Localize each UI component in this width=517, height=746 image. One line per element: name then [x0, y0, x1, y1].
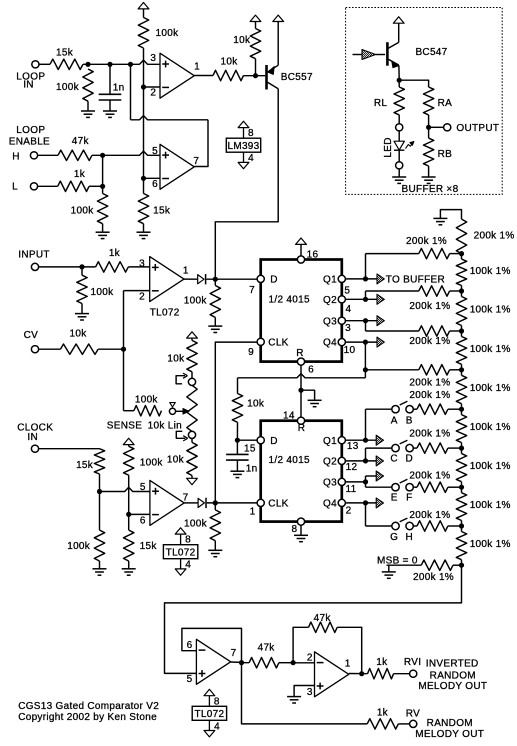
node ladder 8	[459, 523, 464, 528]
wire D pin 15 from junction	[237, 439, 257, 441]
pin 15 D	[257, 437, 264, 444]
resistor 10k pull-up	[250, 29, 260, 59]
svg-text:RANDOM: RANDOM	[430, 670, 476, 681]
svg-text:RANDOM: RANDOM	[427, 718, 473, 729]
svg-text:CV: CV	[24, 330, 39, 341]
buffer input hatched arrow	[353, 54, 363, 56]
resistor 200k 1% row5	[413, 408, 417, 410]
wire output to diode	[184, 502, 198, 504]
ground below 100k	[87, 101, 89, 111]
svg-text:Q1: Q1	[323, 275, 337, 286]
jumper terminal G	[392, 522, 399, 529]
svg-text:200k 1%: 200k 1%	[409, 510, 450, 521]
power V+ above R 100k	[138, 3, 149, 9]
svg-text:47k: 47k	[72, 136, 90, 147]
svg-text:11: 11	[346, 484, 357, 495]
svg-text:2: 2	[346, 505, 352, 516]
wire Q4 to DAC row4	[364, 342, 366, 370]
ground below clock 15k	[128, 561, 130, 569]
resistor 1k	[58, 181, 89, 191]
resistor 200k 1% row6	[413, 447, 417, 449]
node ladder 2	[459, 288, 464, 293]
node dot feedback tap	[128, 62, 133, 67]
resistor 100k 1% ladder 5	[461, 409, 463, 415]
svg-text:LOOP: LOOP	[16, 125, 45, 136]
svg-text:4: 4	[185, 560, 191, 571]
wire 10k to CV bus	[98, 348, 123, 350]
resistor 100k 1% ladder 2	[461, 291, 463, 297]
resistor 15k bus to ground	[138, 194, 148, 224]
wire diode to CLK pins	[207, 502, 258, 504]
svg-text:100k: 100k	[184, 296, 208, 307]
node ladder 3	[459, 328, 464, 333]
wire Q4 to buffer	[345, 341, 377, 343]
resistor 200k 1% row8	[413, 525, 417, 527]
wire Q4 pin2 to buffer	[345, 502, 376, 504]
panel arrow pot bottom	[176, 431, 185, 438]
wire ladder bottom to output mixer	[165, 565, 462, 673]
buffer arrow pin13	[376, 435, 383, 445]
pin 7 D	[257, 275, 264, 282]
ground below clock 100k	[99, 561, 101, 569]
svg-text:12: 12	[346, 462, 358, 473]
wire Q3 to DAC row3	[365, 321, 367, 331]
svg-text:100k 1%: 100k 1%	[470, 266, 511, 277]
svg-text:5: 5	[344, 286, 350, 297]
resistor RA	[423, 87, 433, 115]
svg-text:10k: 10k	[167, 353, 185, 364]
wire Q3 to buffer	[345, 320, 377, 322]
svg-text:LED: LED	[383, 137, 394, 157]
jumper terminal C	[392, 444, 399, 451]
buffer arrow Q3	[377, 316, 384, 326]
svg-text:F: F	[406, 492, 412, 503]
resistor 100k clock pull-down	[214, 503, 216, 510]
buffer arrow Q1	[377, 274, 384, 284]
wire RL to LED terminal	[398, 115, 400, 124]
wire Q2 pin12 to buffer	[345, 460, 376, 462]
svg-text:47k: 47k	[258, 643, 276, 654]
svg-text:1k: 1k	[376, 657, 388, 668]
resistor 15k	[50, 59, 83, 69]
svg-text:3: 3	[307, 687, 313, 698]
node ladder 5	[459, 407, 464, 412]
wire L to 1k	[37, 185, 57, 187]
resistor 200k 1% row2	[419, 286, 450, 296]
svg-text:Q2: Q2	[323, 457, 337, 468]
wire RV from follower output	[242, 663, 368, 724]
wire Q1 to buffer	[345, 278, 377, 280]
svg-text:LM393: LM393	[227, 141, 259, 152]
buffer arrow Q4	[377, 337, 384, 347]
panel arrow pot top	[176, 376, 185, 384]
resistor 100k to ground	[83, 69, 93, 101]
ground DAC top	[440, 210, 461, 220]
resistor 100k 1% ladder 3	[461, 331, 463, 337]
svg-text:100k 1%: 100k 1%	[470, 383, 511, 394]
svg-text:200k 1%: 200k 1%	[409, 378, 450, 389]
svg-text:CLK: CLK	[268, 337, 288, 348]
svg-text:Q3: Q3	[323, 316, 337, 327]
wire CV bus corner to 100k sense	[124, 410, 134, 412]
wire 10k up and right to Q4 row with hop	[237, 378, 239, 394]
node ladder 1	[459, 251, 464, 256]
jumper terminal H with lever	[406, 522, 413, 529]
jumper terminal D with lever	[406, 444, 413, 451]
resistor 1k input	[96, 262, 129, 272]
resistor 10k sense bottom	[187, 442, 197, 475]
svg-text:E: E	[391, 492, 398, 503]
svg-text:15: 15	[244, 443, 256, 454]
svg-text:CGS13 Gated Comparator V2: CGS13 Gated Comparator V2	[18, 701, 159, 712]
svg-text:MELODY OUT: MELODY OUT	[415, 729, 484, 740]
ground below enable 100k	[102, 224, 104, 233]
wire CV bus down to sense resistor	[123, 291, 125, 411]
svg-text:B: B	[406, 415, 413, 426]
svg-text:4: 4	[248, 153, 254, 164]
svg-text:9: 9	[248, 347, 254, 358]
LED	[398, 131, 400, 142]
svg-text:SENSE: SENSE	[107, 421, 142, 432]
wire to inverter pin2	[293, 662, 314, 664]
IC U3b 1/2 4015 box	[261, 421, 342, 522]
wire diode to D pin of 4015	[206, 278, 257, 280]
svg-text:1: 1	[183, 265, 189, 276]
resistor 47k to inverter	[242, 662, 250, 664]
svg-text:100k: 100k	[184, 518, 208, 529]
dashed buffer box	[346, 8, 503, 195]
svg-text:IN: IN	[27, 432, 38, 443]
pot bottom terminal	[188, 431, 195, 438]
svg-text:H: H	[406, 532, 414, 543]
power V+ pin 16	[296, 238, 307, 244]
power block TL072 clock	[163, 545, 197, 559]
svg-text:13: 13	[347, 441, 359, 452]
svg-text:200k 1%: 200k 1%	[413, 572, 454, 583]
wire follower feedback loop	[182, 628, 242, 662]
diode D1	[198, 275, 204, 284]
svg-text:1k: 1k	[74, 169, 86, 180]
wire comparator output to 10k	[194, 75, 213, 77]
wire 47k to op-amp pin5 with hop	[92, 151, 160, 155]
resistor 100k sense	[134, 406, 162, 416]
resistor 100k 1% ladder 1	[461, 254, 463, 260]
svg-text:100k 1%: 100k 1%	[470, 461, 511, 472]
wire H junction down to L junction	[102, 155, 104, 193]
svg-text:10: 10	[344, 345, 356, 356]
node ladder 7	[459, 485, 464, 490]
svg-text:BC557: BC557	[281, 72, 313, 83]
node dot at 100k tap	[85, 62, 90, 67]
svg-text:10k: 10k	[220, 57, 238, 68]
resistor 47k	[58, 150, 92, 160]
wire emitter node to RA	[399, 80, 428, 87]
wire pull-up down to pin6 node	[128, 475, 130, 514]
svg-text:200k 1%: 200k 1%	[409, 471, 450, 482]
svg-text:8: 8	[291, 524, 297, 535]
svg-text:7: 7	[193, 156, 199, 167]
buffer arrow pin2	[376, 498, 383, 508]
svg-text:D: D	[270, 436, 278, 447]
svg-text:OUTPUT: OUTPUT	[456, 123, 499, 134]
svg-text:5: 5	[152, 146, 158, 157]
resistor 1k RVI	[368, 669, 394, 679]
svg-text:2: 2	[139, 292, 145, 303]
svg-text:MELODY OUT: MELODY OUT	[418, 681, 487, 692]
svg-text:D: D	[406, 454, 414, 465]
op-amp U1a LM393 pin3 pin2 out1	[160, 53, 194, 98]
svg-text:RV: RV	[406, 708, 420, 719]
LED bottom terminal	[396, 162, 403, 169]
diode D2	[198, 498, 204, 507]
wire CLK bus up to upper 4015 CLK	[215, 342, 257, 503]
jumper terminal E	[392, 484, 399, 491]
svg-text:5: 5	[187, 674, 193, 685]
wire BC557 collector down to D input node	[215, 89, 278, 279]
svg-text:3: 3	[345, 323, 351, 334]
svg-text:TL072: TL072	[166, 548, 196, 559]
resistor 100k from V+ to comparator inverting node	[138, 18, 148, 49]
svg-text:RL: RL	[374, 98, 388, 109]
terminal OUTPUT	[444, 124, 451, 131]
IC U3a 1/2 4015 box	[261, 260, 342, 362]
svg-text:15k: 15k	[56, 48, 74, 59]
resistor 47k inverter feedback	[293, 627, 308, 662]
resistor 100k clock junction to ground	[99, 492, 101, 531]
wire H to 47k	[37, 154, 58, 156]
transistor Q1 BC557	[265, 65, 268, 90]
resistor 200k 1% row3	[419, 326, 450, 336]
svg-text:6: 6	[308, 365, 314, 376]
node dot H junction	[100, 153, 105, 158]
svg-text:6: 6	[152, 179, 158, 190]
wire INPUT to 1k	[38, 266, 95, 268]
svg-text:1/2 4015: 1/2 4015	[269, 295, 310, 306]
svg-text:IN: IN	[23, 80, 34, 91]
ground MSB	[387, 564, 422, 566]
svg-text:TL072: TL072	[150, 307, 180, 318]
wire emitter to node	[398, 66, 400, 81]
svg-text:200k 1%: 200k 1%	[409, 390, 450, 401]
svg-text:10k: 10k	[69, 329, 87, 340]
pin 12 Q2	[338, 457, 345, 464]
svg-text:100k 1%: 100k 1%	[470, 539, 511, 550]
wire 15k to op-amp pin3 with hop	[83, 60, 160, 64]
resistor 100k enable to ground	[97, 194, 107, 224]
resistor 10k sense top	[187, 340, 197, 371]
pin 4 Q2	[338, 296, 345, 303]
svg-text:100k: 100k	[71, 206, 95, 217]
op-amp U1b LM393 pin5 pin6 out7	[160, 144, 194, 189]
wire pin2 to CV bus	[124, 290, 150, 292]
pot top terminal	[188, 378, 195, 385]
svg-text:Q3: Q3	[323, 478, 337, 489]
pin 8 ground	[297, 518, 304, 525]
op-amp U2b TL072 pin5 pin6 out7	[150, 480, 184, 525]
terminal L	[30, 183, 37, 190]
wire 10k to BC557 base	[244, 75, 266, 77]
svg-text:8: 8	[185, 535, 191, 546]
svg-text:RVI: RVI	[404, 657, 421, 668]
ground below input 100k	[81, 304, 83, 314]
svg-text:8: 8	[248, 128, 254, 139]
svg-text:1: 1	[345, 658, 351, 669]
svg-text:100k 1%: 100k 1%	[470, 422, 511, 433]
svg-text:10k Lin: 10k Lin	[148, 421, 182, 432]
terminal CV	[31, 346, 38, 353]
svg-text:200k 1%: 200k 1%	[409, 336, 450, 347]
svg-text:3: 3	[150, 53, 156, 64]
svg-text:7: 7	[183, 492, 189, 503]
ground below clock pull-down	[214, 541, 216, 551]
buffer arrow pin12	[376, 456, 383, 466]
buffer arrow pin11	[376, 471, 383, 481]
svg-text:200k 1%: 200k 1%	[406, 236, 447, 247]
resistor 1k RV	[367, 719, 398, 729]
svg-text:100k: 100k	[91, 287, 115, 298]
svg-text:1k: 1k	[377, 707, 389, 718]
terminal CLOCK IN	[31, 445, 38, 452]
svg-text:8: 8	[214, 696, 220, 707]
resistor 10k Q4 to D2	[232, 394, 242, 423]
wire 10k pull-up to base node	[255, 59, 257, 76]
resistor 100k 1% ladder 8	[461, 526, 463, 532]
resistor 10k output	[213, 70, 244, 80]
resistor RB	[428, 127, 430, 138]
op-amp U4a TL072 follower pin6 pin5 out7	[196, 639, 230, 684]
power V+ above sense 10k	[187, 332, 198, 338]
wire 1k to pin3	[128, 266, 149, 268]
svg-text:ENABLE: ENABLE	[9, 137, 50, 148]
resistor 200k 1% row1	[419, 248, 450, 258]
op-amp U4b TL072 inverter pin2 pin3 out1	[315, 652, 349, 697]
svg-text:1: 1	[194, 62, 200, 73]
wire 10k to pot top	[191, 372, 193, 379]
svg-text:10k: 10k	[233, 35, 251, 46]
wire pin13 up to jumper A	[365, 409, 367, 440]
pin 2 Q4	[338, 499, 345, 506]
op-amp U2a TL072 pin3 pin2 out1	[150, 257, 184, 302]
terminal INPUT	[31, 263, 38, 270]
ground below pull-down	[214, 317, 216, 326]
svg-text:100k 1%: 100k 1%	[470, 500, 511, 511]
svg-text:4: 4	[345, 304, 351, 315]
svg-text:BC547: BC547	[415, 47, 447, 58]
jumper terminal A	[392, 406, 399, 413]
resistor 15k below pin6 node	[128, 515, 130, 531]
svg-text:10k: 10k	[167, 455, 185, 466]
svg-text:6: 6	[187, 640, 193, 651]
wire pin2 from 100k node	[144, 86, 161, 88]
wire pin12 up to jumper C	[365, 448, 367, 461]
power V+ above clock 100k pull-up	[123, 438, 134, 444]
ground below LED	[398, 169, 400, 177]
resistor RL	[398, 80, 400, 87]
pin 9 CLK	[257, 338, 264, 345]
terminal RVI	[410, 670, 417, 677]
svg-text:BUFFER ×8: BUFFER ×8	[402, 184, 459, 195]
svg-text:TL072: TL072	[194, 709, 224, 720]
wire RA to output node	[428, 115, 430, 127]
svg-text:200k 1%: 200k 1%	[409, 301, 450, 312]
svg-text:100k 1%: 100k 1%	[470, 344, 511, 355]
node dot reset ground tap	[298, 388, 303, 393]
wire pin6 from bus	[144, 177, 161, 179]
wire feedback comparator2 output to +input node with hop	[194, 120, 208, 167]
svg-text:2: 2	[150, 87, 156, 98]
wire Q1 pin13 to buffer	[345, 439, 376, 441]
node ladder 9	[459, 563, 464, 568]
jumper terminal B with lever	[406, 406, 413, 413]
svg-text:2: 2	[307, 652, 313, 663]
wire CV to 10k	[38, 348, 60, 350]
svg-text:200k 1%: 200k 1%	[474, 231, 515, 242]
resistor 100k input to ground	[81, 267, 83, 275]
svg-text:INVERTED: INVERTED	[426, 659, 479, 670]
wire vertical inverting bus to pin6	[143, 87, 145, 178]
wire Q2 to buffer	[345, 298, 377, 300]
wire pin2 down to jumper G	[365, 503, 367, 526]
svg-text:RB: RB	[438, 149, 453, 160]
terminal RV	[410, 720, 417, 727]
wire output to diode	[184, 278, 197, 280]
wire pin11 down to jumper E	[365, 482, 367, 487]
svg-text:1/2 4015: 1/2 4015	[269, 455, 310, 466]
pin 1 CLK	[257, 499, 264, 506]
pin 3 Q3	[338, 317, 345, 324]
terminal H	[30, 152, 37, 159]
wire inverter output	[349, 673, 368, 675]
ground below RB	[428, 166, 430, 177]
wiper terminal of pot	[169, 408, 175, 414]
svg-text:100k 1%: 100k 1%	[470, 305, 511, 316]
svg-text:G: G	[390, 532, 398, 543]
wiper arrow to pot	[176, 410, 183, 412]
svg-text:Q4: Q4	[323, 338, 337, 349]
node ladder 4	[459, 367, 464, 372]
wire CLOCK IN to 15k	[38, 448, 99, 450]
svg-text:1k: 1k	[109, 248, 121, 259]
wire pin6 from node	[129, 513, 150, 515]
wire 100k down to pin2 node	[143, 48, 145, 87]
resistor 15k clock	[94, 449, 104, 474]
power V- below sense 10k	[191, 476, 193, 479]
resistor 200k 1% row4	[419, 365, 450, 375]
ground below 1n	[103, 110, 117, 112]
pin 5 Q1	[338, 275, 345, 282]
svg-text:15k: 15k	[140, 541, 158, 552]
wire pot bottom to 10k	[191, 438, 193, 442]
svg-text:TO BUFFER: TO BUFFER	[386, 274, 445, 285]
pin 10 Q4	[338, 339, 345, 346]
power V+ buffer	[398, 23, 400, 42]
svg-text:10k: 10k	[247, 399, 265, 410]
svg-text:15k: 15k	[153, 206, 171, 217]
wire pin3 to ground	[294, 686, 314, 697]
pin 13 Q1	[338, 437, 345, 444]
LED top terminal	[396, 124, 403, 131]
pin 16	[297, 256, 304, 263]
wire 15k to clock junction	[99, 474, 101, 492]
svg-text:A: A	[391, 415, 398, 426]
wire R pins 6 to 14 with hop	[300, 365, 302, 417]
power V+ above 10k pull-up	[250, 15, 261, 21]
wire LOOP IN to 15k	[38, 63, 50, 65]
svg-text:4: 4	[214, 721, 220, 732]
pin 14 R	[297, 417, 304, 424]
wire Q2 to DAC row2	[365, 291, 367, 299]
svg-text:RA: RA	[438, 98, 453, 109]
